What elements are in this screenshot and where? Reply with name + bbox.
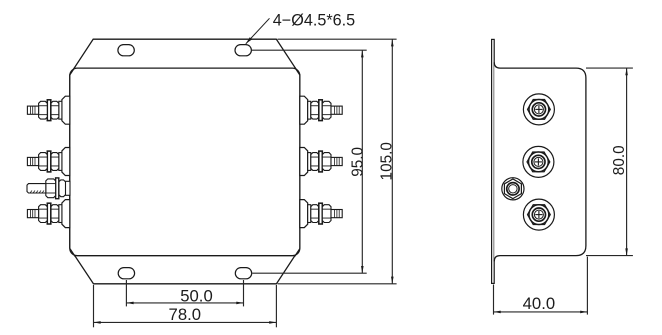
terminal L1 xyxy=(27,96,69,124)
ext line 50 left xyxy=(125,280,127,306)
arrow 40 right xyxy=(580,311,587,314)
ext line 95 bottom xyxy=(252,272,367,274)
terminal R2 xyxy=(300,148,342,176)
dim line 50 xyxy=(126,302,243,304)
ext line 105 top xyxy=(278,38,397,40)
dim line 80 xyxy=(626,68,628,256)
arrow 50 right xyxy=(236,302,243,305)
terminal R3 xyxy=(300,200,342,228)
mounting flange plate (behind body) xyxy=(70,39,300,284)
arrow 95 down xyxy=(361,266,364,273)
svg-text:105.0: 105.0 xyxy=(379,142,396,180)
leader line for hole callout xyxy=(246,18,270,44)
ext line 80 top xyxy=(586,67,633,69)
arrow 80 up xyxy=(625,68,628,75)
svg-text:4−Ø4.5*6.5: 4−Ø4.5*6.5 xyxy=(273,11,355,29)
dim line 95 xyxy=(361,50,363,273)
ext line 40 right xyxy=(586,257,588,315)
ext line 78 left xyxy=(93,285,95,327)
ground terminal L3 xyxy=(27,178,70,199)
mounting hole top-right xyxy=(235,45,251,56)
svg-text:95.0: 95.0 xyxy=(349,147,366,177)
arrow 80 down xyxy=(625,248,628,255)
side terminal 2 xyxy=(523,146,554,177)
ext line 95 top xyxy=(252,49,367,51)
arrowheads front xyxy=(94,37,394,324)
arrow 40 left xyxy=(494,311,501,314)
ext line 78 right xyxy=(275,285,277,327)
ext line 50 right xyxy=(243,280,245,306)
ext line 80 bottom xyxy=(586,255,633,257)
arrow 105 up xyxy=(391,39,394,46)
mounting hole top-left xyxy=(118,45,134,56)
side body outline xyxy=(494,62,586,261)
svg-text:80.0: 80.0 xyxy=(611,145,628,175)
dim line 105 xyxy=(391,39,393,284)
mounting hole bottom-left xyxy=(118,268,134,279)
side terminal 1 xyxy=(523,94,554,125)
arrow 78 left xyxy=(94,321,101,324)
svg-text:50.0: 50.0 xyxy=(180,287,212,306)
arrow 78 right xyxy=(269,321,276,324)
arrow 105 down xyxy=(391,277,394,284)
side terminal 3 xyxy=(523,199,554,230)
arrow leader->hole xyxy=(246,37,252,44)
svg-text:40.0: 40.0 xyxy=(523,294,555,313)
dim line 40 xyxy=(494,311,588,313)
dim line 78 xyxy=(94,321,277,323)
filter body (front box) xyxy=(70,68,300,256)
arrow 50 left xyxy=(126,302,133,305)
terminal L4 xyxy=(27,200,69,228)
ext line 105 bottom xyxy=(278,283,397,285)
svg-text:78.0: 78.0 xyxy=(169,305,201,324)
terminal L2 xyxy=(27,148,69,176)
mounting plate (side) xyxy=(492,39,495,283)
arrow 95 up xyxy=(361,50,364,57)
terminal R1 xyxy=(300,96,342,124)
ext line 40 left xyxy=(493,285,495,315)
flange chamfer tips visible at body corner notches xyxy=(70,67,300,256)
side ground terminal xyxy=(502,178,524,200)
mounting hole bottom-right xyxy=(235,268,251,279)
